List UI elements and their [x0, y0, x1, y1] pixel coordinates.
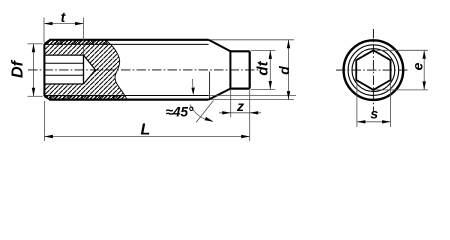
dimension e extension top — [377, 49, 429, 51]
dimension s arrow right — [382, 120, 391, 123]
dimension d arrow top — [287, 40, 290, 49]
root line extension right — [209, 95, 296, 97]
svg-text:s: s — [370, 106, 378, 122]
socket drill cone top — [84, 55, 96, 70]
svg-text:≈45°: ≈45° — [166, 105, 194, 120]
dimension Df arrow bottom — [32, 88, 35, 97]
dimension t extension right — [83, 18, 85, 56]
dimension dt arrow bottom — [269, 81, 272, 90]
socket inner bottom line — [44, 74, 83, 76]
dimension L line — [44, 136, 249, 138]
dimension Df line — [33, 44, 35, 97]
thread root bottom line — [45, 95, 209, 97]
dimension t arrow left — [44, 22, 53, 25]
dimension d extension bottom — [211, 99, 294, 101]
dimension dt extension bottom — [251, 89, 276, 91]
dog point top line — [230, 50, 249, 52]
chamfer circle — [348, 45, 399, 96]
dimension t extension left — [43, 18, 45, 43]
vertical centerline — [372, 29, 374, 113]
svg-text:Df: Df — [10, 59, 27, 78]
dimension e arrow bottom — [423, 81, 426, 90]
socket bottom vertical — [83, 55, 85, 84]
dimension L arrow right — [241, 135, 250, 138]
dimension s line — [357, 121, 391, 123]
dimension e extension bottom — [377, 89, 429, 91]
dimension dt line — [269, 50, 271, 89]
socket outer top line — [44, 54, 83, 56]
socket drill cone bottom — [84, 70, 96, 84]
dimension d line — [288, 40, 290, 100]
dimension z arrow left (outside) — [222, 111, 231, 114]
right chamfer cone top — [209, 40, 231, 52]
dimension t arrow right — [75, 22, 84, 25]
dimension Df arrow top — [32, 44, 35, 53]
hex socket — [356, 50, 390, 90]
left face — [43, 44, 45, 96]
dimension d extension top — [211, 39, 294, 41]
dimension s extension left — [356, 81, 358, 127]
dog point end face — [249, 51, 251, 88]
svg-text:z: z — [236, 98, 244, 114]
shoulder of dog point — [229, 51, 231, 88]
svg-text:L: L — [141, 121, 151, 138]
dimension Df extension bottom — [28, 95, 43, 97]
angle reference vertical line — [209, 72, 211, 100]
chamfer bottom-left — [44, 96, 50, 99]
outer circle (major diameter) — [344, 40, 404, 100]
dimension z line with tails — [219, 112, 261, 114]
centerline of side view — [28, 69, 261, 71]
wire: wavy break line — [105, 40, 127, 100]
body bottom OD line — [49, 98, 208, 100]
socket drill circle — [352, 49, 395, 92]
chamfer angle arc with arrow — [190, 105, 213, 122]
dimension L arrow left — [44, 135, 53, 138]
thread root top line — [45, 43, 209, 45]
dimension e line — [423, 50, 425, 90]
hatched section area (broken-out section around socket) — [44, 40, 127, 100]
right chamfer cone bottom — [209, 89, 231, 100]
chamfer angle leader vertical with arrow onto root line — [192, 79, 194, 88]
body top OD line — [49, 39, 208, 41]
chamfer angle reference diagonal — [196, 101, 214, 123]
svg-text:d: d — [276, 66, 292, 75]
horizontal centerline — [336, 69, 408, 71]
socket inner top line — [44, 62, 83, 64]
dimension e arrow top — [423, 50, 426, 59]
dimension s arrow left — [357, 120, 366, 123]
svg-text:dt: dt — [255, 60, 272, 75]
dimension Df extension top — [28, 43, 43, 45]
dimension t line — [44, 23, 84, 25]
chamfer top-left — [44, 40, 50, 44]
dimension L extension left — [43, 101, 45, 141]
dimension dt extension top — [251, 49, 276, 51]
dimension s extension right — [390, 81, 392, 127]
svg-text:e: e — [410, 62, 426, 70]
dimension dt arrow top — [269, 50, 272, 59]
dense hatch band top (thread section) — [44, 40, 108, 45]
dense hatch band bottom (thread section) — [44, 96, 126, 100]
dimension L extension right — [249, 90, 251, 141]
dimension d arrow bottom — [287, 91, 290, 100]
dimension z arrow right (outside) — [250, 111, 259, 114]
dog point bottom line — [230, 87, 249, 89]
socket outer bottom line — [44, 83, 83, 85]
dimension z extension left — [230, 90, 232, 117]
